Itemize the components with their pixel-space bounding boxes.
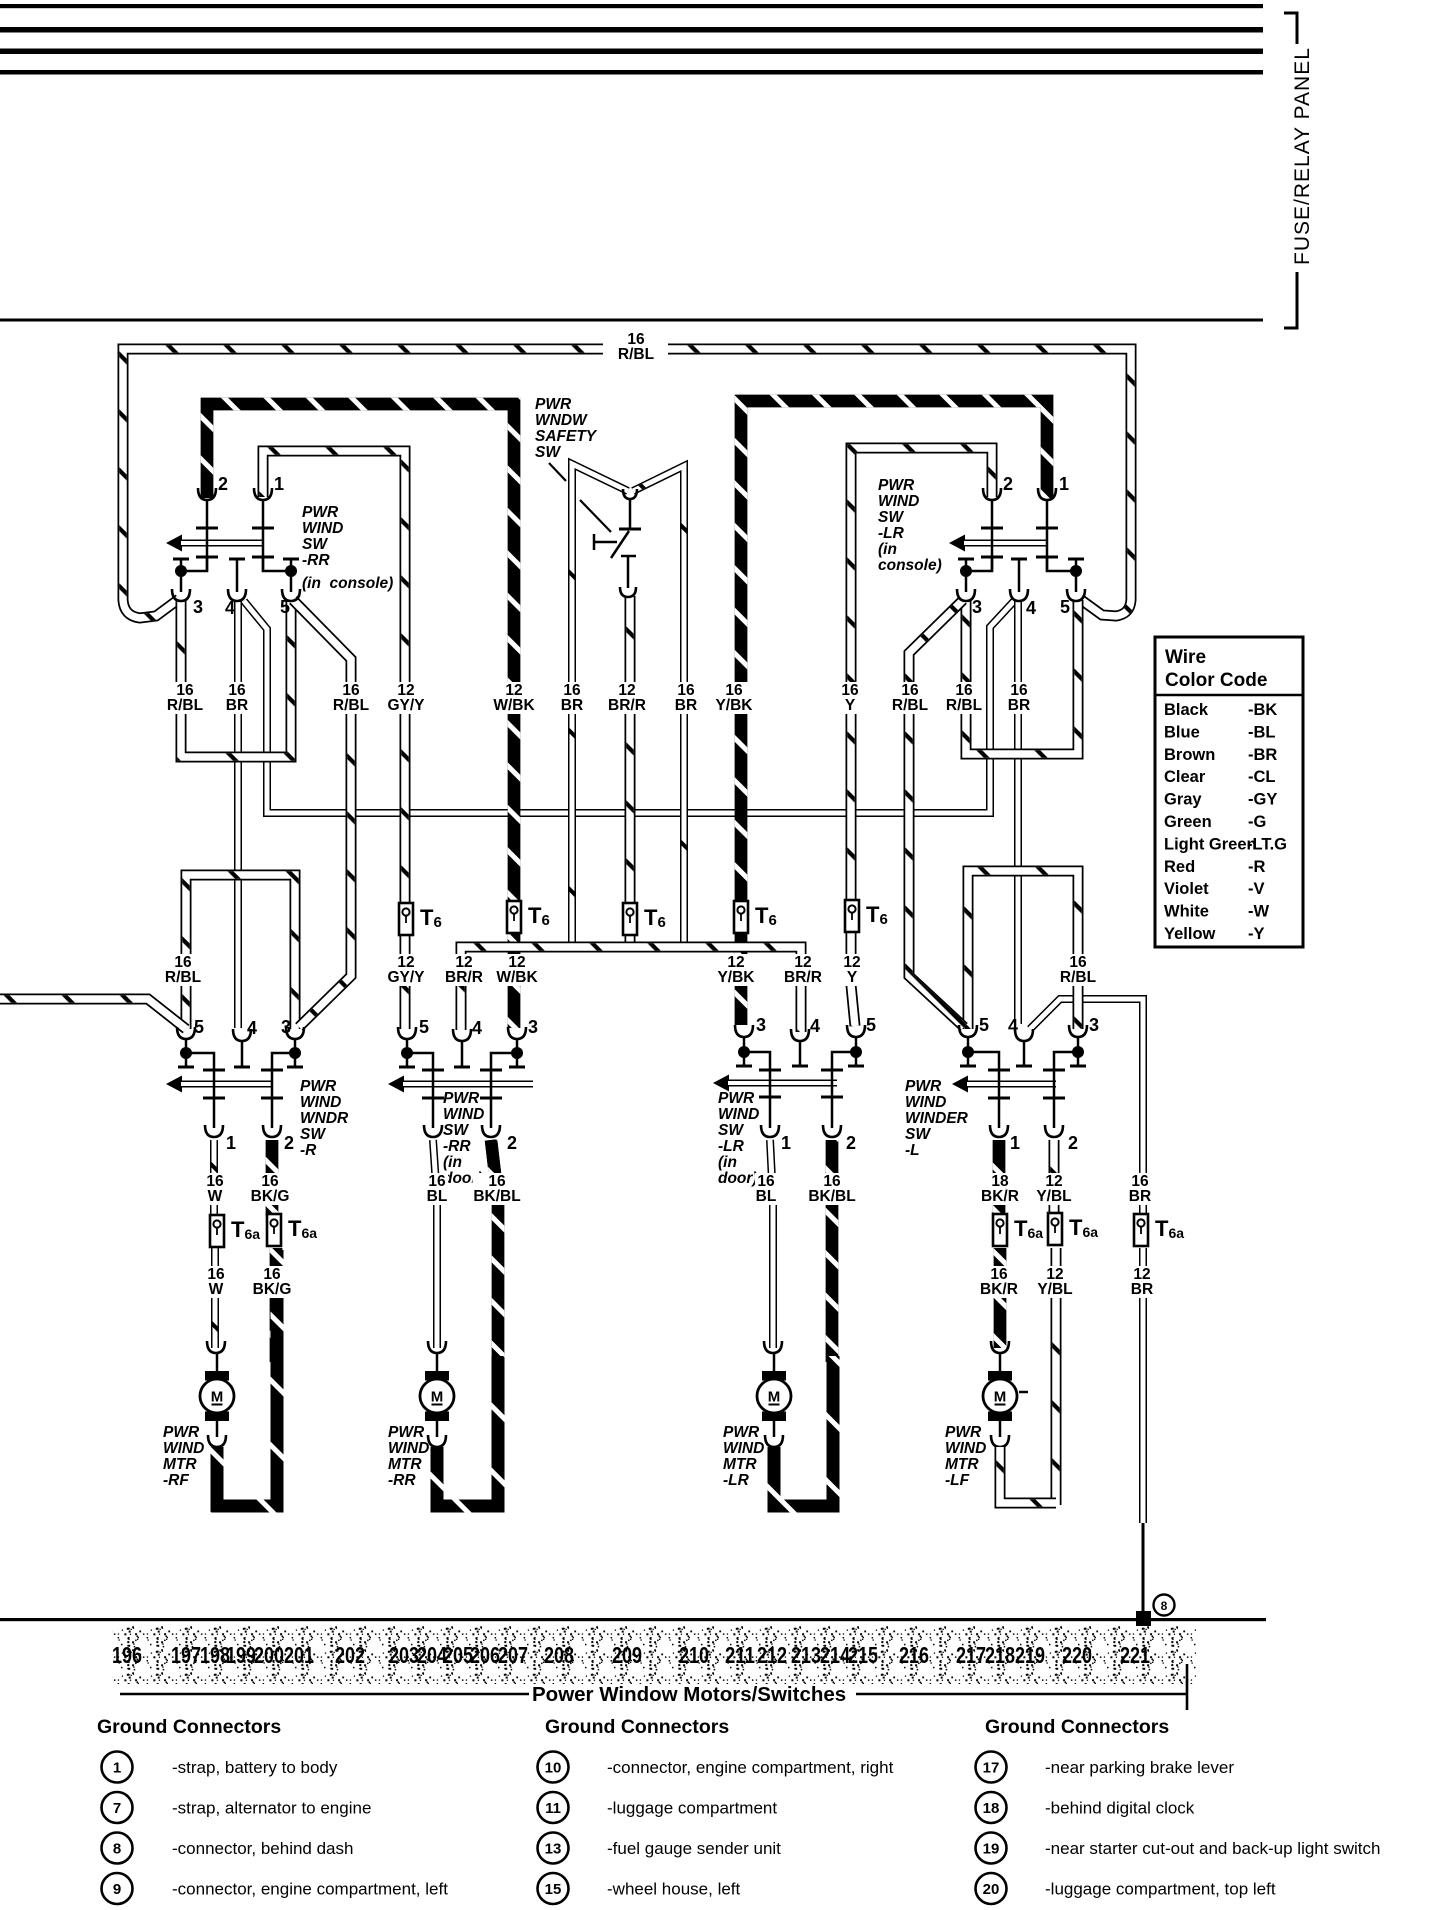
- safety switch lower contact: [621, 556, 636, 588]
- wire 12 GY/Y console -RR pin1 loop to door -RR pin5: [263, 451, 405, 1029]
- door -RR actuator bar: [403, 1081, 533, 1088]
- motor -RR return lead: [436, 1421, 439, 1437]
- svg-text:218: 218: [985, 1642, 1015, 1668]
- svg-text:BR: BR: [1129, 1188, 1151, 1205]
- svg-text:-wheel house, left: -wheel house, left: [607, 1880, 741, 1899]
- svg-text:2: 2: [1003, 474, 1013, 494]
- door -R actuator arrow: [166, 1076, 182, 1093]
- console -LR pin1 lead: [1046, 500, 1049, 571]
- wire label 16 R/BL middle row: [163, 954, 203, 986]
- door -RR pin4 fork: [453, 1029, 471, 1041]
- door -LR pin2 tick upper: [821, 1069, 843, 1072]
- ground connector 1: [102, 1752, 133, 1783]
- motor -RF supply lead: [216, 1353, 219, 1371]
- motor -RR return fork: [428, 1435, 446, 1447]
- console -LR pin2 tick upper: [981, 527, 1003, 530]
- wire label 12 GY/Y middle row: [386, 954, 426, 986]
- svg-text:Light Green: Light Green: [1164, 835, 1257, 853]
- motor -LR supply fork: [764, 1341, 782, 1353]
- svg-text:-connector, engine compartment: -connector, engine compartment, right: [607, 1758, 894, 1777]
- wire 12 BR single lead to ground: [1142, 1523, 1145, 1616]
- svg-text:R/BL: R/BL: [892, 697, 928, 714]
- console -RR pin3 fork: [172, 589, 190, 601]
- svg-text:W: W: [209, 1281, 224, 1298]
- door -L pin2 tick upper: [1043, 1069, 1065, 1072]
- wire 16 BL door -LR pin1 to motor -LR: [770, 1140, 773, 1348]
- wire 16 W door -R pin1 to motor -RF: [210, 1140, 218, 1216]
- bracket rule left of Power Window Motors/Switches: [120, 1693, 529, 1696]
- svg-text:BR: BR: [1008, 697, 1030, 714]
- svg-text:202: 202: [335, 1642, 365, 1668]
- wire label 16 BK/G below T6a: [252, 1266, 292, 1298]
- svg-text:197: 197: [171, 1642, 201, 1668]
- wire label 16 Y upper row: [839, 682, 861, 714]
- svg-text:BR/R: BR/R: [445, 969, 483, 986]
- door -RR pin2 fork: [482, 1125, 500, 1137]
- svg-text:-BL: -BL: [1248, 723, 1276, 741]
- door -RR pin1 tick upper: [422, 1069, 444, 1072]
- svg-text:Power Window Motors/Switches: Power Window Motors/Switches: [532, 1683, 846, 1706]
- fuse panel bus bar 2: [0, 27, 1263, 33]
- door -RR pin1 fork: [424, 1125, 442, 1137]
- svg-text:-G: -G: [1248, 813, 1266, 831]
- motor -RF supply fork: [207, 1341, 225, 1353]
- motor M PWR WIND MTR -LF: [983, 1371, 1028, 1421]
- svg-text:BK/BL: BK/BL: [808, 1188, 855, 1205]
- outer loop label 16 R/BL: [618, 331, 654, 363]
- svg-text:Ground Connectors: Ground Connectors: [545, 1716, 729, 1738]
- console -RR pin2 to pin3 jog: [181, 557, 207, 571]
- door -LR contact 5: [848, 1053, 864, 1066]
- svg-text:1: 1: [1059, 474, 1069, 494]
- svg-text:-BR: -BR: [1248, 746, 1277, 764]
- door -R pin3 to pin2 jog: [272, 1053, 295, 1128]
- motor -LF return lead: [999, 1421, 1002, 1437]
- svg-text:4: 4: [225, 598, 235, 618]
- console -LR pin2 tick lower: [981, 556, 1003, 559]
- wire label 12 BR/R upper row: [607, 682, 647, 714]
- wire label 12 GY/Y upper row: [386, 682, 426, 714]
- svg-text:1: 1: [113, 1760, 121, 1777]
- door -L pin4 fork: [1015, 1029, 1033, 1041]
- svg-text:Blue: Blue: [1164, 723, 1200, 741]
- svg-text:BK/R: BK/R: [980, 1281, 1018, 1298]
- wire 16 BR safety switch left: [572, 464, 628, 944]
- svg-text:Gray: Gray: [1164, 791, 1202, 809]
- door -L pin1 fork: [990, 1125, 1008, 1137]
- ground connector 18: [976, 1792, 1007, 1823]
- console -RR pin5 fork: [282, 589, 300, 601]
- door -L pin5 to pin1 jog: [968, 1052, 999, 1128]
- svg-text:9: 9: [113, 1881, 121, 1898]
- svg-text:GY/Y: GY/Y: [387, 969, 425, 986]
- connector T6 (BR/R): [623, 903, 637, 935]
- console -RR contact 4: [229, 559, 245, 592]
- door -RR pin1 tick lower: [422, 1097, 444, 1100]
- fuse panel bus bar 3: [0, 49, 1263, 55]
- console -LR pin2 to pin3 jog: [966, 557, 992, 571]
- console -LR contact 4: [1011, 559, 1027, 592]
- svg-text:-strap, battery to body: -strap, battery to body: [172, 1758, 338, 1777]
- motor M PWR WIND MTR -RR: [420, 1371, 454, 1421]
- ground connector 11: [538, 1792, 569, 1823]
- svg-text:11: 11: [545, 1800, 561, 1817]
- door -LR actuator arrow: [713, 1075, 729, 1092]
- ground connector 13: [538, 1833, 569, 1864]
- ground connector 17: [976, 1752, 1007, 1783]
- svg-text:196: 196: [112, 1642, 142, 1668]
- console -LR contact 3: [958, 559, 974, 570]
- svg-text:R/BL: R/BL: [1060, 969, 1096, 986]
- svg-text:5: 5: [419, 1017, 429, 1037]
- door -RR pin3 fork: [508, 1027, 526, 1039]
- door -LR pin5 lead: [855, 1037, 858, 1052]
- door -R actuator bar: [181, 1081, 272, 1088]
- door -L junction pin5: [962, 1046, 974, 1058]
- door -RR contact 5: [399, 1054, 415, 1067]
- console -LR contact 5: [1068, 559, 1084, 570]
- svg-text:1: 1: [1010, 1133, 1020, 1153]
- door -RR pin5 to pin1 jog: [407, 1053, 433, 1128]
- ground connector 9: [102, 1873, 133, 1904]
- svg-text:209: 209: [612, 1642, 642, 1668]
- door -RR pin3 lead: [516, 1039, 519, 1053]
- console -LR junction pin5: [1070, 565, 1082, 577]
- door -L contact 3: [1070, 1053, 1086, 1066]
- svg-text:3: 3: [1089, 1015, 1099, 1035]
- svg-text:Y: Y: [847, 969, 858, 986]
- console -RR actuator arrow: [166, 535, 182, 552]
- door -L pin5 lead: [967, 1037, 970, 1052]
- svg-text:3: 3: [528, 1017, 538, 1037]
- wire motor -RF return U loop: [217, 1250, 277, 1506]
- svg-text:205: 205: [443, 1642, 473, 1668]
- door -LR pin3 fork: [735, 1025, 753, 1037]
- svg-text:4: 4: [1026, 598, 1036, 618]
- svg-text:W/BK: W/BK: [496, 969, 538, 986]
- wire 16 BK/BL door -LR pin2 to motor loop: [826, 1140, 839, 1362]
- wire 12 Y/BL motor -LF return loop: [1000, 1447, 1056, 1503]
- wire label 16 BK/BL lower row: [808, 1173, 857, 1205]
- svg-text:M: M: [211, 1389, 224, 1406]
- svg-text:2: 2: [218, 474, 228, 494]
- svg-text:18: 18: [983, 1800, 1000, 1817]
- console -LR pin1 to pin5 jog: [1047, 557, 1076, 571]
- door -L pin3 to pin2 jog: [1054, 1052, 1078, 1128]
- wire label 16 R/BL upper row: [890, 682, 930, 714]
- svg-text:219: 219: [1015, 1642, 1045, 1668]
- svg-text:Ground Connectors: Ground Connectors: [985, 1716, 1169, 1738]
- connector T6a (W): [210, 1215, 224, 1247]
- svg-text:BL: BL: [427, 1188, 448, 1205]
- svg-text:8: 8: [113, 1841, 121, 1858]
- svg-text:BK/R: BK/R: [981, 1188, 1019, 1205]
- motor -LR return fork: [765, 1435, 783, 1447]
- svg-text:Green: Green: [1164, 813, 1212, 831]
- safety switch blade: [611, 531, 629, 558]
- wire 12 BR/R safety switch output: [625, 596, 636, 944]
- svg-text:3: 3: [972, 597, 982, 617]
- console -RR pin1 tick upper: [252, 527, 274, 530]
- fuse/relay panel bracket bottom: [1284, 272, 1297, 328]
- door -R junction pin3: [289, 1047, 301, 1059]
- svg-text:199: 199: [226, 1642, 256, 1668]
- bracket rule right of title: [856, 1664, 1187, 1710]
- safety switch fixed contact: [594, 534, 617, 550]
- console -RR actuator bar: [181, 540, 263, 547]
- svg-text:220: 220: [1062, 1642, 1092, 1668]
- svg-text:3: 3: [756, 1015, 766, 1035]
- wire color code legend box: [1155, 637, 1303, 947]
- door -RR junction pin3: [511, 1047, 523, 1059]
- svg-text:2: 2: [1068, 1133, 1078, 1153]
- svg-text:-luggage compartment: -luggage compartment: [607, 1799, 777, 1818]
- wire label 16 Y/BK upper row: [714, 682, 754, 714]
- svg-text:-V: -V: [1248, 880, 1265, 898]
- ground terminal square 221: [1136, 1611, 1151, 1626]
- svg-text:8: 8: [1161, 1599, 1168, 1613]
- svg-text:GY/Y: GY/Y: [387, 697, 425, 714]
- wire 16 W below T6a: [211, 1248, 219, 1348]
- door -R pin3 fork: [286, 1027, 304, 1039]
- door -LR junction pin3: [738, 1046, 750, 1058]
- door -R pin5 to pin1 jog: [186, 1053, 214, 1128]
- svg-text:W: W: [208, 1188, 223, 1205]
- wire 12 Y/BK console -LR pin1 loop to door -LR pin3: [741, 401, 1047, 1025]
- wire 12 BR below T6a: [1139, 1248, 1147, 1523]
- svg-text:212: 212: [757, 1642, 787, 1668]
- door -L pin5 fork: [959, 1025, 977, 1037]
- wire label 16 BR upper row: [226, 682, 248, 714]
- wire 12 Y console -LR pin2 loop to door -LR pin5: [851, 448, 992, 1026]
- svg-text:217: 217: [956, 1642, 986, 1668]
- wire label 16 R/BL middle row: [1058, 954, 1098, 986]
- wire label 16 W below T6a: [205, 1266, 227, 1298]
- wire label 12 BR/R middle row: [783, 954, 823, 986]
- safety switch output fork: [620, 587, 636, 597]
- wire 12 Y/BL door -L pin2 down: [1049, 1140, 1060, 1214]
- svg-text:BR/R: BR/R: [784, 969, 822, 986]
- svg-text:2: 2: [507, 1133, 517, 1153]
- door -L contact 4: [1016, 1041, 1032, 1066]
- svg-text:FUSE/RELAY PANEL: FUSE/RELAY PANEL: [1291, 47, 1314, 265]
- svg-text:Y/BL: Y/BL: [1037, 1281, 1072, 1298]
- connector T6a (BR): [1134, 1214, 1148, 1246]
- svg-text:R/BL: R/BL: [946, 697, 982, 714]
- door -R pin5 lead: [185, 1039, 188, 1053]
- svg-text:216: 216: [899, 1642, 929, 1668]
- door -L pin3 fork: [1069, 1025, 1087, 1037]
- motor -LF return fork: [991, 1435, 1009, 1447]
- wire 16 R/BL console -RR pin3-pin5 jumper: [181, 601, 291, 757]
- svg-text:1: 1: [781, 1133, 791, 1153]
- door -LR junction pin5: [850, 1046, 862, 1058]
- svg-text:BR: BR: [1131, 1281, 1153, 1298]
- wire label 16 BR upper row: [561, 682, 583, 714]
- wire label 16 BR lower row: [1129, 1173, 1151, 1205]
- svg-text:214: 214: [820, 1642, 850, 1668]
- svg-text:4: 4: [810, 1016, 820, 1036]
- svg-text:5: 5: [979, 1015, 989, 1035]
- wire 16 BK/BL door -RR pin2 to motor loop: [491, 1140, 498, 1362]
- motor M PWR WIND MTR -LR: [757, 1371, 791, 1421]
- svg-text:-W: -W: [1248, 903, 1269, 921]
- wire label 12 Y/BK middle row: [716, 954, 756, 986]
- safety switch contact fork: [623, 489, 637, 499]
- door -RR pin5 lead: [406, 1039, 409, 1053]
- door -RR pin5 fork: [398, 1027, 416, 1039]
- svg-text:200: 200: [254, 1642, 284, 1668]
- fuse panel bottom rule: [0, 319, 1263, 322]
- wire label 16 BK/R below T6a: [979, 1266, 1019, 1298]
- door -L contact 5: [960, 1053, 976, 1066]
- door -L actuator bar: [967, 1081, 1056, 1088]
- svg-text:M: M: [768, 1389, 781, 1406]
- svg-text:Y/BK: Y/BK: [715, 697, 753, 714]
- wire 16 R/BL console -RR pin5 to door -R pin3: [293, 600, 351, 1027]
- svg-text:M: M: [994, 1389, 1007, 1406]
- door -R pin1 fork: [205, 1125, 223, 1137]
- console -RR pin2 fork: [198, 488, 216, 500]
- svg-text:201: 201: [284, 1642, 314, 1668]
- svg-text:-connector, engine compartment: -connector, engine compartment, left: [172, 1880, 448, 1899]
- motor M PWR WIND MTR -RF: [200, 1371, 234, 1421]
- ground connector 8: [102, 1833, 133, 1864]
- connector T6a (Y/BL): [1048, 1213, 1062, 1245]
- svg-text:Color Code: Color Code: [1165, 670, 1267, 691]
- safety switch wire stub: [629, 500, 632, 528]
- wire 16 BR console -LR pin4 down to door -L pin4: [1014, 600, 1022, 1024]
- wire label 16 BR upper row: [675, 682, 697, 714]
- console -RR pin1 lead: [262, 500, 265, 571]
- console -LR actuator arrow: [949, 535, 965, 552]
- svg-text:BK/G: BK/G: [251, 1188, 290, 1205]
- svg-text:(in console): (in console): [302, 575, 393, 592]
- svg-text:2: 2: [284, 1133, 294, 1153]
- wire 16 BR bus console pin4 to pin4: [244, 600, 1015, 813]
- door -L pin3 lead: [1077, 1037, 1080, 1052]
- svg-text:10: 10: [545, 1760, 562, 1777]
- svg-text:Y: Y: [845, 697, 856, 714]
- console -RR junction pin5: [285, 565, 297, 577]
- svg-text:20: 20: [983, 1881, 1000, 1898]
- door -L pin2 fork: [1045, 1125, 1063, 1137]
- door -R pin5 fork: [177, 1027, 195, 1039]
- console -RR pin1 to pin5 jog: [263, 557, 291, 571]
- console -RR pin2 lead: [206, 500, 209, 571]
- svg-text:-LT.G: -LT.G: [1247, 835, 1287, 853]
- console -RR pin1 fork: [254, 488, 272, 500]
- wire label 12 Y/BL lower row: [1034, 1173, 1074, 1205]
- ground connector 7: [102, 1792, 133, 1823]
- console -LR junction pin3: [960, 565, 972, 577]
- door -RR contact 4: [454, 1041, 470, 1067]
- svg-text:R/BL: R/BL: [167, 697, 203, 714]
- wire label 12 W/BK middle row: [496, 954, 538, 986]
- svg-text:-near parking brake lever: -near parking brake lever: [1045, 1758, 1234, 1777]
- svg-text:Y/BK: Y/BK: [717, 969, 755, 986]
- wire label 16 R/BL upper row: [331, 682, 371, 714]
- svg-text:BR/R: BR/R: [608, 697, 646, 714]
- wire 16 R/BL console -LR pin3 to door -L pin5: [909, 600, 964, 1027]
- wire 18 BK/R door -L pin1 down: [993, 1140, 1006, 1214]
- svg-text:4: 4: [247, 1018, 257, 1038]
- wire 16 R/BL feed from left edge to door -R pin5: [0, 999, 186, 1029]
- wire 16 BK/G door -R pin2 down: [266, 1140, 279, 1216]
- svg-text:BL: BL: [756, 1188, 777, 1205]
- motor -RF return fork: [208, 1435, 226, 1447]
- console -RR pin2 tick lower: [196, 556, 218, 559]
- wire label 16 BK/BL lower row: [473, 1173, 522, 1205]
- svg-text:Yellow: Yellow: [1164, 925, 1216, 943]
- wire label 12 BR/R middle row: [444, 954, 484, 986]
- door -R pin2 tick upper: [261, 1069, 283, 1072]
- fuse/relay panel bracket top: [1284, 13, 1297, 44]
- motor -LR return lead: [773, 1421, 776, 1437]
- door -RR contact 3: [509, 1054, 525, 1067]
- svg-text:1: 1: [226, 1133, 236, 1153]
- console -LR pin2 fork: [983, 488, 1001, 500]
- door -LR pin4 fork: [791, 1029, 809, 1041]
- ground connector 15: [538, 1873, 569, 1904]
- console -RR pin1 tick lower: [252, 556, 274, 559]
- door -RR actuator arrow: [388, 1076, 404, 1093]
- door -LR pin1 tick lower: [759, 1096, 781, 1099]
- svg-text:Wire: Wire: [1165, 647, 1206, 668]
- svg-text:13: 13: [545, 1841, 562, 1858]
- door -R contact 3: [287, 1054, 303, 1067]
- svg-text:-Y: -Y: [1248, 925, 1265, 943]
- svg-text:19: 19: [983, 1841, 1000, 1858]
- motor -LF supply fork: [991, 1341, 1009, 1353]
- svg-text:221: 221: [1120, 1642, 1150, 1668]
- console -LR pin3 lead: [965, 571, 968, 592]
- console -LR pin3 fork: [957, 589, 975, 601]
- svg-text:203: 203: [389, 1642, 419, 1668]
- door -LR pin3 to pin1 jog: [744, 1052, 770, 1128]
- svg-text:BR: BR: [675, 697, 697, 714]
- wire label 16 BR upper row: [1008, 682, 1030, 714]
- safety switch terminal tick: [619, 528, 641, 531]
- motor -LR supply lead: [773, 1353, 776, 1371]
- wire motor -RR return U loop: [437, 1356, 498, 1506]
- wire 16 BR safety switch right: [633, 466, 684, 944]
- wire 16 BR console -RR pin4 down to door -R pin4: [234, 601, 242, 1028]
- wire 16 R/BL door -L pin5-pin3 jumper loop: [968, 871, 1078, 1029]
- wire 12 BR ground tap from door -L pin4: [1030, 999, 1143, 1216]
- bottom rule above track numbers: [0, 1618, 1266, 1621]
- door -R contact 5: [178, 1054, 194, 1067]
- wire 12 W/BK console -RR pin2 loop to door -RR pin3: [207, 404, 514, 1028]
- door -RR junction pin5: [401, 1047, 413, 1059]
- wire 12 BR/R bus to door pin4s: [461, 947, 801, 1032]
- speckled track number strip: [112, 1626, 1196, 1684]
- svg-text:Clear: Clear: [1164, 768, 1206, 786]
- wire 16 BK/R below T6a to motor -LF: [994, 1248, 1007, 1348]
- svg-text:215: 215: [848, 1642, 878, 1668]
- wire 16 R/BL console -LR pin3-pin5 jumper: [966, 600, 1078, 754]
- door -LR contact 4: [792, 1041, 808, 1066]
- svg-text:-connector, behind dash: -connector, behind dash: [172, 1839, 353, 1858]
- svg-text:R/BL: R/BL: [618, 346, 654, 363]
- svg-text:Y/BL: Y/BL: [1036, 1188, 1071, 1205]
- console -LR pin1 fork: [1038, 488, 1056, 500]
- svg-text:R/BL: R/BL: [333, 697, 369, 714]
- wire 16 R/BL feed outer loop right: [668, 349, 1131, 616]
- door -LR actuator bar: [728, 1080, 837, 1087]
- console -LR pin5 fork: [1067, 589, 1085, 601]
- motor -RF return lead: [216, 1421, 219, 1437]
